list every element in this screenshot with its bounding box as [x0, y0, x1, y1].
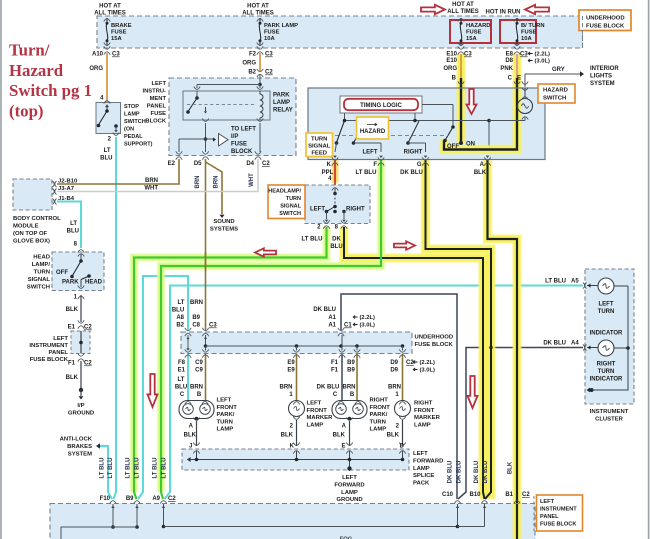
- svg-text:HAZARD: HAZARD: [466, 23, 490, 29]
- svg-text:A8: A8: [176, 315, 184, 321]
- svg-text:SIGNAL: SIGNAL: [28, 277, 51, 283]
- wire BLK left park/turn lamp A to splice J: [196, 421, 198, 446]
- svg-text:B9: B9: [347, 360, 355, 366]
- svg-text:GLOVE BOX): GLOVE BOX): [13, 239, 50, 245]
- red arrow down right: [468, 376, 478, 408]
- svg-text:F10: F10: [100, 496, 111, 502]
- svg-text:BRAKE: BRAKE: [111, 23, 132, 29]
- svg-text:TURN: TURN: [311, 137, 327, 143]
- yellow box TURN SIGNAL FEED: [306, 133, 333, 157]
- svg-text:SWITCH: SWITCH: [279, 211, 301, 217]
- svg-text:PANEL: PANEL: [48, 350, 68, 356]
- svg-text:INSTRUMENT: INSTRUMENT: [29, 343, 68, 349]
- svg-text:LT: LT: [104, 148, 111, 154]
- svg-text:(2.2L): (2.2L): [420, 360, 436, 366]
- svg-text:BRAKES: BRAKES: [67, 444, 92, 450]
- svg-text:HOT AT: HOT AT: [247, 4, 269, 10]
- svg-text:BRN: BRN: [190, 385, 203, 391]
- svg-text:E10: E10: [446, 52, 457, 58]
- svg-text:HAZARD: HAZARD: [543, 88, 568, 94]
- svg-text:GRY: GRY: [552, 67, 565, 73]
- relay moving contact arrow: [205, 107, 207, 111]
- svg-text:LT BLU: LT BLU: [162, 458, 168, 479]
- svg-text:BLU: BLU: [175, 385, 187, 391]
- band internal wires: [187, 335, 189, 351]
- junction small fuse block: [79, 341, 83, 345]
- connector D4: [255, 151, 261, 154]
- svg-text:J3-A7: J3-A7: [58, 186, 75, 192]
- svg-text:DK BLU: DK BLU: [483, 461, 489, 484]
- svg-text:BRN: BRN: [190, 300, 203, 306]
- splice pack entries: [193, 451, 199, 454]
- svg-text:D9: D9: [390, 368, 398, 374]
- svg-text:LAMP: LAMP: [414, 422, 431, 428]
- svg-text:TURN: TURN: [598, 309, 615, 315]
- orange box LEFT INSTRUMENT PANEL FUSE BLOCK bottom: [533, 496, 535, 531]
- body control module dashed border: [13, 179, 52, 210]
- svg-text:LAMP/: LAMP/: [32, 262, 51, 268]
- svg-text:PANEL: PANEL: [147, 104, 167, 110]
- svg-text:LT: LT: [178, 300, 185, 306]
- underhood fuse block (top) fill: [97, 16, 583, 48]
- svg-text:MODULE: MODULE: [13, 224, 39, 230]
- stop lamp switch internals: [105, 105, 109, 108]
- wire BLK head lamp switch 1 to E1: [80, 295, 82, 322]
- wire BRN underhood D9 to right marker lamp 1: [402, 354, 404, 401]
- svg-text:WHT: WHT: [144, 186, 158, 192]
- ON contact: [459, 141, 463, 145]
- wire PPL terminal K highlight: [332, 160, 339, 183]
- right page border line: [648, 0, 650, 539]
- svg-text:A10: A10: [92, 52, 104, 58]
- svg-text:C3: C3: [520, 52, 528, 58]
- svg-text:A: A: [342, 424, 347, 430]
- wire BRN over green crossing: [205, 252, 207, 271]
- svg-text:ORG: ORG: [89, 66, 103, 72]
- svg-text:BLK: BLK: [66, 307, 79, 313]
- connector F2/C3: [257, 46, 263, 49]
- svg-text:K: K: [290, 444, 295, 450]
- svg-text:FUSE BLOCK: FUSE BLOCK: [586, 24, 625, 30]
- svg-text:C2: C2: [262, 161, 270, 167]
- svg-text:SPLICE: SPLICE: [413, 473, 434, 479]
- RIGHT contact and wire: [406, 141, 410, 145]
- svg-text:F8: F8: [178, 360, 186, 366]
- left forward lamp ground stub: [349, 460, 351, 472]
- svg-text:B1: B1: [505, 492, 513, 498]
- svg-text:A9: A9: [152, 496, 160, 502]
- terminal 2 stop lamp switch: [113, 133, 119, 136]
- svg-text:LT BLU: LT BLU: [356, 170, 377, 176]
- svg-text:TURN: TURN: [217, 419, 233, 425]
- wire relay feed horizontal: [197, 84, 260, 86]
- red arrow left-pointing middle: [255, 248, 276, 257]
- svg-text:E1: E1: [68, 325, 76, 331]
- svg-text:CLUSTER: CLUSTER: [595, 417, 624, 423]
- svg-text:J2-B10: J2-B10: [58, 179, 78, 185]
- svg-text:SIGNAL: SIGNAL: [308, 144, 331, 150]
- red arrow down inside switch box: [467, 89, 477, 114]
- svg-text:A1: A1: [328, 323, 336, 329]
- relay coil: [260, 91, 263, 120]
- cluster internal ground wire: [593, 286, 628, 390]
- wire core DK BLU G to B10: [426, 160, 492, 499]
- svg-text:B2: B2: [248, 70, 256, 76]
- svg-text:BRN: BRN: [388, 385, 401, 391]
- connector C10: [454, 501, 460, 504]
- svg-text:LT BLU: LT BLU: [126, 458, 132, 479]
- svg-text:F: F: [373, 162, 377, 168]
- svg-text:HEAD: HEAD: [85, 280, 103, 286]
- svg-text:INSTRUMENT: INSTRUMENT: [540, 507, 577, 513]
- svg-text:SWITCH: SWITCH: [27, 285, 50, 291]
- svg-text:C3: C3: [464, 52, 472, 58]
- svg-text:OFF: OFF: [56, 270, 68, 276]
- svg-text:LAMP: LAMP: [273, 100, 290, 106]
- svg-text:ANTI-LOCK: ANTI-LOCK: [60, 437, 93, 443]
- svg-text:FUSE BLOCK: FUSE BLOCK: [540, 522, 576, 528]
- lamp left front park/turn: [179, 401, 214, 419]
- wire PNK/BLK b-turn-fuse feed C with yellow highlight: [444, 54, 517, 150]
- svg-text:INDICATOR: INDICATOR: [590, 377, 623, 383]
- svg-text:DK BLU: DK BLU: [543, 341, 566, 347]
- wire DK BLU instrument cluster A4 branch to C10: [458, 348, 583, 500]
- terminal G: [424, 156, 428, 158]
- svg-text:HOT AT: HOT AT: [99, 4, 121, 10]
- svg-text:B: B: [452, 76, 457, 82]
- svg-text:BLOCK: BLOCK: [145, 119, 166, 125]
- connector E2: [176, 151, 182, 154]
- svg-text:A4: A4: [571, 341, 579, 347]
- svg-text:HEADLAMP/: HEADLAMP/: [268, 189, 301, 195]
- svg-text:DK BLU: DK BLU: [457, 461, 463, 484]
- svg-text:LEFT: LEFT: [217, 398, 232, 404]
- LEFT contact and wire: [352, 141, 356, 145]
- wire BLK right park/turn lamp A to splice E: [349, 421, 351, 446]
- svg-text:UNDERHOOD: UNDERHOOD: [415, 335, 454, 341]
- stop lamp switch box border: [96, 103, 121, 134]
- svg-text:BLU: BLU: [172, 308, 184, 314]
- svg-text:(ON: (ON: [124, 127, 134, 133]
- relay linkage dashed: [187, 104, 256, 106]
- svg-text:B2: B2: [176, 323, 184, 329]
- wire inside small fuse block: [80, 331, 82, 354]
- svg-text:C10: C10: [442, 492, 454, 498]
- wire LT BLU terminal F to A9 green highlight: [161, 160, 381, 492]
- wire BLK right marker lamp 2 to splice D: [402, 420, 404, 446]
- wire BLK F1 to I/P ground: [80, 361, 82, 389]
- wire core ORG fuse E10 to B: [460, 54, 462, 78]
- instrument cluster dashed border: [585, 269, 634, 404]
- svg-text:BLU: BLU: [330, 244, 342, 250]
- svg-text:FUSE: FUSE: [264, 30, 280, 36]
- svg-text:FUSE BLOCK: FUSE BLOCK: [30, 357, 69, 363]
- svg-text:LT BLU: LT BLU: [545, 279, 566, 285]
- small fuse block dashed border: [71, 331, 90, 354]
- svg-text:Switch pg 1: Switch pg 1: [9, 81, 92, 100]
- svg-text:C1: C1: [344, 323, 352, 329]
- svg-text:B: B: [350, 392, 355, 398]
- wire BLK left marker lamp 2 to splice K: [296, 420, 298, 446]
- svg-text:FEED: FEED: [311, 151, 327, 157]
- svg-text:FUSE: FUSE: [111, 30, 127, 36]
- svg-text:E: E: [341, 444, 345, 450]
- svg-text:D5: D5: [194, 161, 202, 167]
- svg-text:B/ TURN: B/ TURN: [521, 23, 545, 29]
- svg-text:ALL TIMES: ALL TIMES: [242, 11, 274, 17]
- svg-text:RIGHT: RIGHT: [346, 207, 365, 213]
- wire LT BLU BCM J1-B4 to head lamp switch: [57, 202, 81, 249]
- left turn indicator bulb: [587, 285, 598, 287]
- left instrument panel fuse block (relay area) fill: [169, 78, 296, 156]
- svg-text:J: J: [189, 444, 192, 450]
- svg-text:F1: F1: [331, 360, 339, 366]
- connector A10/C3: [104, 46, 110, 49]
- right park/turn lamp terminal A: [346, 418, 352, 421]
- svg-text:BLOCK: BLOCK: [231, 149, 253, 155]
- band top connector A1/C1: [338, 328, 344, 331]
- svg-text:PARK/: PARK/: [217, 412, 235, 418]
- terminal 8: [341, 220, 347, 223]
- band top connector A8/B2: [185, 328, 191, 331]
- svg-text:FUSE: FUSE: [521, 30, 537, 36]
- svg-text:OFF: OFF: [447, 144, 459, 150]
- wire core BLK A to B1: [488, 160, 518, 539]
- svg-text:LEFT: LEFT: [152, 81, 167, 87]
- svg-text:C8: C8: [192, 323, 200, 329]
- svg-text:RIGHT: RIGHT: [370, 398, 389, 404]
- headlamp/turn signal switch dashed border: [305, 185, 370, 224]
- band top connector B9/C8: [202, 328, 208, 331]
- svg-text:BODY CONTROL: BODY CONTROL: [13, 216, 61, 222]
- svg-text:B9: B9: [192, 315, 200, 321]
- svg-text:LEFT: LEFT: [310, 207, 325, 213]
- svg-text:E10: E10: [446, 58, 457, 64]
- svg-text:FORWARD: FORWARD: [334, 482, 364, 488]
- svg-text:DK BLU: DK BLU: [317, 385, 340, 391]
- orange box HAZARD SWITCH: [538, 84, 575, 103]
- svg-text:B: B: [197, 392, 202, 398]
- svg-text:F2: F2: [249, 52, 257, 58]
- left page border line: [0, 0, 2, 539]
- bottom fuse block box fill: [50, 504, 535, 539]
- svg-text:BLU: BLU: [100, 156, 112, 162]
- svg-text:C3: C3: [265, 52, 273, 58]
- right turn indicator bulb: [587, 347, 598, 349]
- head lamp switch internals: [78, 254, 84, 257]
- svg-text:15A: 15A: [111, 36, 122, 42]
- lamp LEFT FRONT MARKER LAMP: [289, 401, 305, 417]
- svg-text:TURN: TURN: [286, 196, 301, 202]
- terminal 2: [323, 220, 329, 223]
- svg-text:FUSE: FUSE: [151, 111, 167, 117]
- svg-text:BRN: BRN: [280, 385, 293, 391]
- left marker lamp terminal 2: [293, 417, 299, 420]
- hazard linkage dashed: [335, 135, 448, 137]
- svg-text:I/P: I/P: [231, 134, 238, 140]
- svg-text:FUSE BLOCK: FUSE BLOCK: [415, 342, 454, 348]
- wire core PNK fuse E8 to C: [516, 54, 518, 78]
- connector F10: [110, 501, 116, 504]
- svg-text:E8: E8: [506, 52, 514, 58]
- svg-text:LAMP: LAMP: [217, 427, 234, 433]
- turn signal switch box border: [308, 88, 545, 160]
- svg-text:D4: D4: [246, 161, 254, 167]
- lamp right front park/turn: [332, 401, 367, 419]
- junction DK BLU A4 tap on G wire: [489, 346, 493, 350]
- svg-text:LAMP: LAMP: [341, 490, 358, 496]
- connector F1/C2: [78, 353, 84, 356]
- underhood fuse block (middle band) fill: [181, 332, 412, 354]
- wire DK BLU terminal 8 to B10 with yellow highlight: [344, 227, 485, 499]
- fuse BRAKE FUSE 15A: [104, 19, 110, 22]
- svg-text:LT BLU: LT BLU: [108, 458, 114, 479]
- svg-text:F1: F1: [331, 368, 339, 374]
- svg-text:DK BLU: DK BLU: [448, 461, 454, 484]
- I/P ground symbol: [79, 388, 83, 392]
- svg-text:SYSTEM: SYSTEM: [590, 81, 615, 87]
- hazard indicator lamp: [524, 88, 526, 99]
- terminal K: [333, 156, 337, 158]
- head lamp switch box fill: [52, 252, 104, 291]
- svg-text:C9: C9: [195, 360, 203, 366]
- svg-text:RIGHT: RIGHT: [404, 150, 423, 156]
- wire DK BLU underhood A1 to C10: [341, 294, 457, 499]
- svg-text:HAZARD: HAZARD: [360, 129, 386, 135]
- svg-text:FUSE: FUSE: [231, 142, 247, 148]
- splice pack ground bus: [187, 457, 191, 462]
- svg-text:GROUND: GROUND: [68, 411, 94, 417]
- svg-text:BLK: BLK: [184, 433, 197, 439]
- svg-text:B9: B9: [347, 368, 355, 374]
- svg-text:SWITCH: SWITCH: [124, 119, 146, 125]
- svg-text:BLK: BLK: [387, 433, 400, 439]
- svg-text:PARK: PARK: [62, 280, 79, 286]
- svg-text:C: C: [508, 76, 513, 82]
- svg-text:FRONT: FRONT: [370, 405, 391, 411]
- red arrow top left-pointing: [525, 5, 549, 15]
- svg-text:HOT AT: HOT AT: [452, 2, 474, 8]
- blade lower switch: [327, 207, 336, 212]
- wire LT BLU anti-lock brakes branch to F10: [99, 446, 112, 499]
- svg-text:C2: C2: [522, 492, 530, 498]
- svg-text:DK: DK: [332, 237, 341, 243]
- svg-text:LT BLU: LT BLU: [153, 458, 159, 479]
- svg-text:C: C: [180, 392, 185, 398]
- node B2 feed: [258, 83, 262, 87]
- timing logic output wire: [422, 104, 453, 106]
- svg-text:LAMP: LAMP: [413, 466, 430, 472]
- hazard switch pivot: [451, 125, 455, 129]
- svg-text:Hazard: Hazard: [9, 61, 64, 80]
- svg-text:15A: 15A: [466, 36, 477, 42]
- svg-text:SYSTEMS: SYSTEMS: [210, 227, 238, 233]
- svg-text:SUPPORT): SUPPORT): [124, 142, 153, 148]
- svg-text:FRONT: FRONT: [217, 405, 238, 411]
- wire BRN underhood C9 to left park/turn lamp B: [205, 354, 207, 401]
- svg-text:LAMP: LAMP: [307, 422, 324, 428]
- svg-text:RIGHT: RIGHT: [414, 401, 433, 407]
- right marker lamp terminal 2: [399, 417, 405, 420]
- svg-text:A1: A1: [328, 315, 336, 321]
- svg-text:WHT: WHT: [249, 173, 255, 187]
- red box hazard fuse: [450, 20, 491, 43]
- svg-text:D8: D8: [505, 58, 513, 64]
- svg-text:(ON TOP OF: (ON TOP OF: [13, 231, 48, 237]
- headlamp/turn signal switch internals: [332, 188, 338, 191]
- wire core PPL K to turn signal switch: [334, 160, 336, 186]
- svg-text:A5: A5: [571, 279, 579, 285]
- left instrument panel fuse block dashed border: [169, 78, 296, 156]
- node relay output to E2 and triangle: [204, 137, 208, 141]
- svg-text:INDICATOR: INDICATOR: [590, 331, 623, 337]
- terminal F: [379, 156, 383, 158]
- svg-text:DK BLU: DK BLU: [313, 307, 336, 313]
- red box b/turn fuse: [500, 20, 536, 43]
- left forward lamp splice pack dashed border: [182, 449, 409, 470]
- connector B10: [481, 501, 487, 504]
- wire B2 to relay node: [259, 75, 261, 85]
- svg-text:BLK: BLK: [508, 461, 514, 474]
- arrowhead sound systems: [219, 215, 224, 218]
- svg-text:LEFT: LEFT: [342, 475, 357, 481]
- svg-text:SOUND: SOUND: [213, 219, 234, 225]
- svg-text:G: G: [417, 162, 422, 168]
- svg-text:LEFT: LEFT: [53, 336, 68, 342]
- svg-text:10A: 10A: [264, 36, 275, 42]
- svg-text:SIGNAL: SIGNAL: [280, 204, 301, 210]
- timing logic outer box: [340, 96, 422, 113]
- relay outputs: [202, 119, 208, 122]
- svg-text:C: C: [333, 392, 338, 398]
- svg-text:INTERIOR: INTERIOR: [590, 66, 619, 72]
- bottom fuse block dashed border: [50, 504, 535, 539]
- OFF contact: [443, 139, 447, 143]
- svg-text:LT: LT: [178, 377, 185, 383]
- wire LT BLU stop lamp switch to F10: [114, 137, 117, 499]
- wire ORG park lamp fuse F2 to B2: [259, 53, 261, 71]
- wire DK BLU terminal G to B10 with yellow highlight: [426, 160, 492, 499]
- wire BLK terminal A to B1 with yellow highlight: [488, 160, 518, 539]
- timing logic red rounded box: [344, 99, 418, 110]
- svg-text:TURN: TURN: [598, 369, 615, 375]
- svg-text:PARK/: PARK/: [370, 412, 388, 418]
- svg-text:INSTRU-: INSTRU-: [142, 89, 166, 95]
- connector B2/C2: [257, 69, 263, 72]
- left park/turn lamp terminal A: [193, 418, 199, 421]
- svg-text:10A: 10A: [521, 36, 532, 42]
- wire ORG/BLK hazard-fuse feed B with yellow highlight: [457, 54, 466, 143]
- orange box HEADLAMP/TURN SIGNAL SWITCH: [268, 185, 305, 219]
- svg-text:BLK: BLK: [66, 375, 79, 381]
- svg-text:FRONT: FRONT: [307, 408, 328, 414]
- svg-text:TURN: TURN: [34, 270, 50, 276]
- wire core green LT BLU F to A9: [161, 160, 381, 499]
- relay switch: [196, 91, 198, 97]
- svg-text:(2.2L): (2.2L): [360, 315, 376, 321]
- wire hazard common to terminal A: [488, 121, 490, 153]
- svg-text:C9: C9: [195, 368, 203, 374]
- svg-text:A: A: [480, 162, 485, 168]
- connector B1: [514, 501, 520, 504]
- svg-text:E: E: [517, 76, 521, 82]
- svg-text:C3: C3: [112, 52, 120, 58]
- svg-text:LIGHTS: LIGHTS: [590, 74, 612, 80]
- svg-text:LEFT: LEFT: [540, 499, 555, 505]
- svg-text:BRN: BRN: [195, 176, 201, 189]
- wire BRN branch D5 to sound systems: [206, 162, 223, 214]
- left forward lamp splice pack fill: [182, 449, 409, 470]
